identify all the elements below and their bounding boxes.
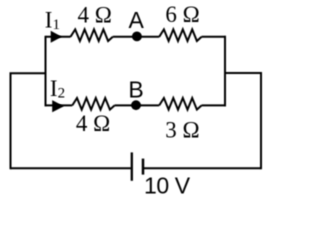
wire: second branch segment before 4-ohm: [46, 104, 73, 106]
wire: bottom left to battery: [11, 167, 131, 169]
svg-text:4 Ω: 4 Ω: [76, 111, 110, 136]
current arrow I1: [51, 31, 62, 43]
svg-text:4 Ω: 4 Ω: [78, 2, 112, 27]
svg-text:A: A: [129, 7, 145, 33]
wire: inner-left vertical junction: [45, 36, 47, 107]
svg-text:10 V: 10 V: [144, 172, 191, 198]
wire: left connector to outer loop: [11, 73, 46, 169]
resistor R3 4-ohm (lower branch): [72, 98, 114, 110]
current arrow I2: [52, 100, 64, 112]
svg-text:6 Ω: 6 Ω: [165, 2, 199, 27]
battery V1 short plate: [142, 159, 145, 175]
wire: second branch segment after 3-ohm: [202, 104, 226, 106]
svg-text:B: B: [128, 76, 143, 102]
wire: top branch between 4-ohm and 6-ohm through node A: [113, 36, 159, 38]
resistor R2 6-ohm (top): [159, 29, 201, 41]
wire: inner-right vertical junction: [224, 36, 226, 107]
wire: right connector to outer loop: [225, 73, 261, 169]
resistor R4 3-ohm (lower branch): [159, 98, 201, 110]
battery V1 long plate: [131, 152, 133, 180]
wire: bottom right from battery: [144, 167, 261, 169]
svg-text:3 Ω: 3 Ω: [165, 118, 199, 143]
wire: second branch between 4-ohm and 3-ohm through node B: [115, 104, 160, 106]
resistor R1 4-ohm (top): [71, 29, 113, 41]
node A junction dot: [132, 32, 142, 42]
wire: top branch segment before 4-ohm: [46, 36, 71, 38]
wire: top branch segment after 6-ohm: [202, 36, 226, 38]
node B junction dot: [131, 100, 141, 110]
